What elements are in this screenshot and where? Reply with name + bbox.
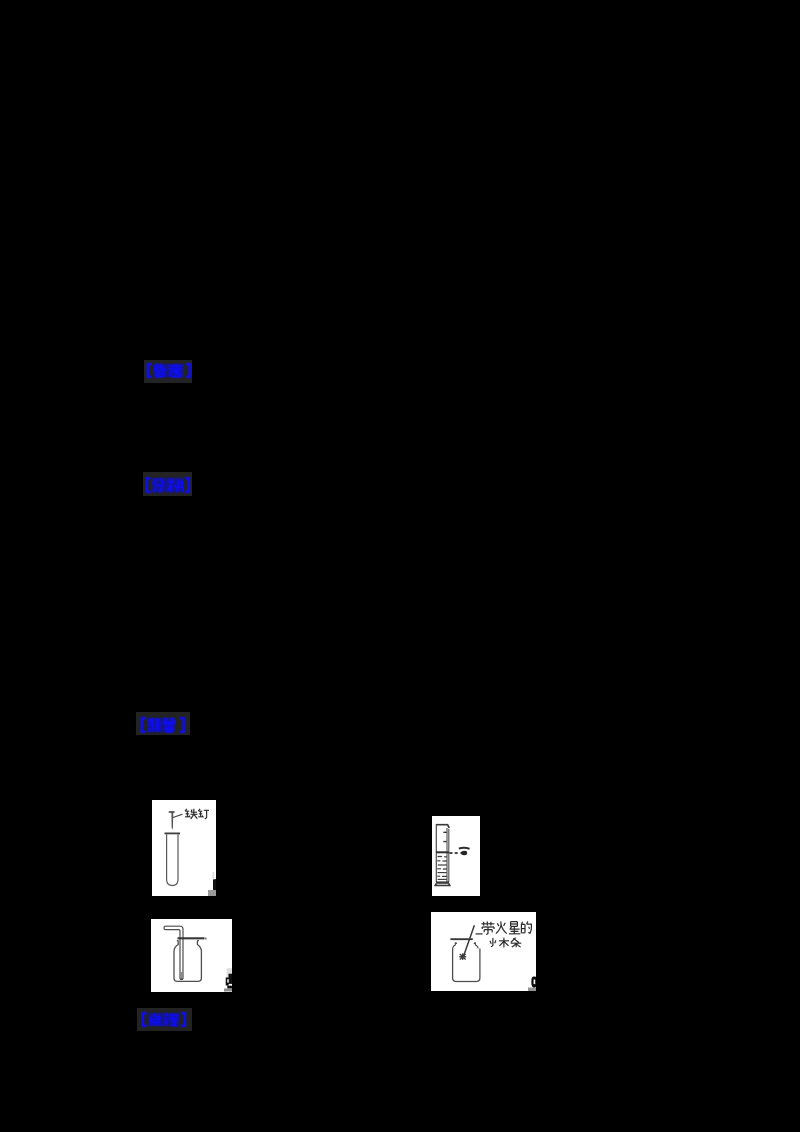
eye upper lid <box>459 848 470 849</box>
figure 1: test tube with iron nail <box>152 800 216 896</box>
leader line <box>476 933 483 935</box>
gray handle bar <box>528 988 536 992</box>
spark <box>459 953 466 960</box>
gray handle bar <box>224 989 232 992</box>
label 小木条 <box>490 938 521 948</box>
marker 4 highlight box <box>137 1008 192 1031</box>
light gray block at right edge <box>227 968 232 978</box>
black glyph fragment at edge <box>226 974 232 989</box>
jar neck and body <box>174 941 201 982</box>
black text fragment at edge <box>213 879 216 891</box>
base <box>436 881 449 883</box>
figure 3: gas washing bottle with L-tube <box>151 919 232 992</box>
figure 2: measuring cylinder with eye <box>432 816 480 896</box>
cylinder rim <box>436 825 449 828</box>
tube vertical part <box>180 930 183 980</box>
dashed sight line <box>450 852 460 854</box>
jar neck <box>453 943 479 949</box>
nail head <box>169 811 175 813</box>
marker 2 blue text 【分析】 <box>145 477 191 493</box>
liquid hatching <box>437 857 447 880</box>
marker 2 highlight box <box>143 472 192 496</box>
scale ticks upper <box>443 832 447 841</box>
tube tip shading <box>180 972 183 979</box>
gray handle square <box>208 890 216 896</box>
figure 4: collecting jar with glowing splint <box>431 912 536 991</box>
neck lips <box>177 940 199 942</box>
label 带火星的 <box>481 921 531 934</box>
eye pupil / arrowhead <box>460 851 467 855</box>
marker 3 blue text 【解答】 <box>140 716 186 733</box>
black glyph fragment at right edge <box>531 977 536 988</box>
liquid level line <box>436 851 448 853</box>
right wall double <box>447 828 449 882</box>
leader line to label <box>173 814 183 817</box>
faint streak <box>213 872 215 879</box>
splint <box>464 925 475 956</box>
glass plate <box>450 938 472 940</box>
marker 3 highlight box <box>136 712 190 735</box>
glass plate on top <box>178 937 205 939</box>
label 铁钉 <box>185 809 209 819</box>
test tube body <box>167 835 178 886</box>
test tube rim <box>165 832 181 834</box>
marker 4 blue text 【点评】 <box>141 1012 187 1027</box>
L-shaped delivery tube <box>166 926 184 931</box>
left wall <box>435 826 437 883</box>
marker 1 highlight box <box>144 360 192 383</box>
jar body <box>453 949 480 982</box>
marker 1 blue text 【答案】 <box>146 363 192 378</box>
nail shaft <box>171 813 173 830</box>
